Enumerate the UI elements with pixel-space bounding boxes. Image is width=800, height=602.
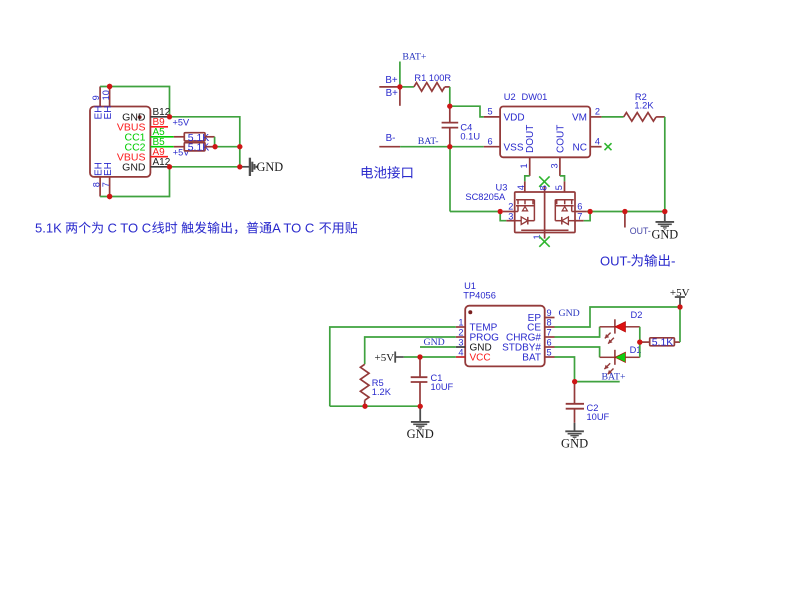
svg-text:BAT-: BAT- [418, 136, 439, 147]
svg-text:5.1K: 5.1K [35, 221, 62, 236]
wire: U1 TEMP to ground rail [330, 327, 456, 406]
pin B12 lead [150, 116, 169, 118]
U3 pin 4 stub [524, 181, 526, 192]
svg-text:7: 7 [577, 212, 582, 222]
svg-text:OUT-: OUT- [600, 254, 631, 269]
svg-text:10: 10 [101, 90, 111, 100]
pin A12 lead [150, 166, 169, 168]
svg-text:C TO C: C TO C [108, 221, 152, 236]
wire: bottom shell rail to A12 net [100, 167, 169, 197]
svg-text:1.2K: 1.2K [634, 101, 654, 111]
U3 pin 8 stub with no-connect [544, 186, 546, 193]
wire: A12 to GND [170, 166, 240, 168]
svg-text:5: 5 [547, 347, 552, 357]
wire: U1 GND pin stub [420, 346, 456, 348]
svg-text:GND: GND [122, 161, 146, 173]
svg-text:+5V: +5V [173, 118, 190, 128]
svg-text:1.2K: 1.2K [372, 387, 392, 397]
svg-text:2: 2 [508, 201, 513, 211]
wire: B- to VSS with BAT- label [400, 146, 450, 148]
svg-text:VM: VM [572, 113, 587, 124]
junction OUT- tap [622, 209, 627, 214]
wire: U1 CE to +5V rail [555, 307, 681, 327]
capacitor C1 10UF [419, 357, 421, 377]
svg-text:5.1K: 5.1K [188, 142, 210, 154]
junction B+ node [397, 84, 402, 89]
LED D1 (green) [600, 356, 615, 358]
wire: BAT- rail into U3 pin2 [450, 211, 500, 213]
wire: U1 CHRG# to D2 [555, 327, 600, 337]
LED D2 light arrows [605, 333, 611, 339]
U3 internal body diode D-B [568, 220, 575, 222]
svg-text:7: 7 [101, 182, 111, 187]
svg-text:COUT: COUT [555, 125, 566, 153]
junction U3 pin6 [588, 209, 593, 214]
svg-text:4: 4 [595, 137, 600, 147]
U3 internal bottom rail [521, 229, 568, 231]
connector pin 7 stub (bottom shell) [109, 177, 111, 197]
svg-text:VCC: VCC [470, 353, 491, 364]
wire: BAT node to BAT+ label [575, 381, 620, 383]
svg-text:6: 6 [547, 337, 552, 347]
junction GND corner (battery out) [662, 209, 667, 214]
wire jog U2 pin1 to U3 pin4 [525, 176, 530, 182]
svg-text:U2: U2 [504, 92, 516, 102]
wire: BAT+ stub [399, 62, 401, 87]
ground symbol GND (under C1) [419, 406, 421, 421]
svg-text:3: 3 [458, 337, 463, 347]
svg-text:U3: U3 [496, 182, 508, 192]
capacitor C2 10UF [574, 382, 576, 404]
U3 pin 3 lead [506, 220, 515, 222]
wire: U1 BAT to battery node [555, 357, 575, 382]
svg-text:BAT+: BAT+ [602, 371, 627, 382]
svg-text:7: 7 [547, 327, 552, 337]
junction C1 bottom / ground [418, 404, 423, 409]
connector pin 9 stub (top shell) [99, 87, 101, 107]
wire: bottom ground rail [330, 405, 420, 407]
note text: battery port label (blue) [362, 166, 373, 178]
wire: tie U3 pins 2-3 [500, 212, 506, 221]
U2 pin 5 VDD [484, 116, 500, 118]
U1 pin 8 CE [545, 326, 555, 328]
svg-text:-: - [671, 254, 676, 269]
junction B12 row [167, 114, 172, 119]
svg-text:10UF: 10UF [587, 412, 610, 422]
U3 center rail pin8 to pin1 [544, 192, 546, 239]
junction GND bus / A12 row [237, 164, 242, 169]
junction at pin10 top [107, 84, 112, 89]
U3 internal MOSFET Q-A (left) [516, 199, 534, 201]
svg-text:GND: GND [561, 437, 588, 451]
svg-text:3: 3 [549, 163, 559, 168]
wire: R1 out down to VDD node [449, 87, 451, 106]
svg-text:2: 2 [595, 107, 600, 117]
LED D1 light arrows [604, 363, 610, 369]
capacitor C4 0.1U [449, 106, 451, 122]
U1 pin 1 TEMP [456, 326, 465, 328]
U2 pin 4 NC [590, 146, 601, 148]
svg-text:5: 5 [488, 107, 493, 117]
net stub OUT- [624, 212, 626, 228]
U1 pin 3 GND [456, 346, 465, 348]
pin B5 lead wire [150, 146, 173, 148]
connector pin B+ (vertical) [399, 87, 401, 106]
U3 internal body diode D-A [515, 220, 522, 222]
U1 pin 9 EP [545, 317, 555, 319]
resistor R5 1.2K [360, 364, 369, 400]
svg-text:D2: D2 [631, 310, 643, 320]
junction VCC/C1 [417, 354, 422, 359]
LED D2 (red) [600, 326, 615, 328]
svg-text:10UF: 10UF [431, 382, 454, 392]
pin A9 lead [150, 156, 168, 158]
svg-text:GND: GND [407, 427, 434, 441]
U3 pin 2 lead [503, 211, 515, 213]
svg-text:3: 3 [508, 212, 513, 222]
svg-text:VDD: VDD [504, 113, 525, 124]
svg-text:VSS: VSS [504, 142, 524, 153]
svg-text:5.1K: 5.1K [652, 337, 674, 349]
svg-text:4: 4 [516, 185, 526, 190]
svg-text:6: 6 [577, 201, 582, 211]
svg-text:DOUT: DOUT [525, 125, 536, 153]
junction at pin7 bottom [107, 194, 112, 199]
svg-text:NC: NC [573, 142, 587, 153]
U1 pin 2 PROG [456, 336, 465, 338]
U3 pin 5 stub [564, 181, 566, 192]
wire: +5V down to R6 [679, 307, 681, 342]
junction VDD node [447, 104, 452, 109]
pin B9 lead [150, 126, 168, 128]
junction BAT- node [447, 144, 452, 149]
wire: B+ to R1 [400, 86, 414, 88]
svg-text:B-: B- [386, 133, 396, 144]
wire: U1 VCC to +5V flag [404, 356, 456, 358]
U1 pin 4 VCC [456, 356, 465, 358]
svg-text:GND: GND [559, 308, 580, 319]
resistor R3 5.1K (CC1) [184, 133, 205, 141]
svg-text:TP4056: TP4056 [463, 291, 496, 301]
wire: tie U3 pins 6-7 [584, 212, 590, 221]
U2 pin 1 DOUT stub down [529, 157, 531, 176]
svg-text:BAT+: BAT+ [402, 52, 427, 63]
svg-text:OUT-: OUT- [630, 226, 651, 236]
svg-text:9: 9 [91, 95, 101, 100]
svg-text:BAT: BAT [522, 353, 541, 364]
svg-text:GND: GND [257, 160, 284, 174]
junction R4 output [213, 144, 218, 149]
U1 pin 6 STDBY# [545, 346, 555, 348]
ground flag GND (connector, rotated earth) [240, 166, 249, 168]
junction BAT node [572, 379, 577, 384]
svg-text:8: 8 [547, 317, 552, 327]
connector pin 8 stub (bottom shell) [99, 177, 101, 197]
pin A5 lead wire [150, 136, 173, 138]
junction A12 row [167, 164, 172, 169]
svg-text:6: 6 [488, 137, 493, 147]
connector pin 10 stub (top shell) [109, 87, 111, 107]
wire: B12 to GND bus vertical [170, 117, 240, 167]
wire: U3 pin6 to OUT-/GND rail [590, 211, 665, 213]
resistor R6 5.1K (LED) [640, 341, 650, 343]
svg-text:B+: B+ [385, 75, 398, 86]
wire: CC resistors to GND bus [215, 146, 240, 148]
svg-text:1: 1 [519, 163, 529, 168]
junction +5V node [677, 304, 682, 309]
U3 pin 7 lead [575, 220, 584, 222]
svg-text:DW01: DW01 [522, 92, 548, 102]
svg-text:B+: B+ [386, 88, 399, 99]
U1 pin 7 CHRG# [545, 336, 555, 338]
wire: D1 anode up to node [639, 342, 641, 357]
svg-text:4: 4 [458, 347, 463, 357]
connector pin B- [379, 146, 400, 148]
wire: R3 to R4 output [214, 137, 216, 147]
U2 pin 3 COUT stub down [559, 157, 561, 176]
U3 internal MOSFET Q-B (right) [555, 199, 573, 201]
svg-text:+5V: +5V [375, 352, 395, 364]
connector pin B+ (horizontal) [379, 86, 400, 88]
no-connect X on U2 pin4 [605, 143, 612, 150]
svg-text:R1 100R: R1 100R [414, 73, 451, 83]
svg-text:SC8205A: SC8205A [465, 192, 506, 202]
svg-text:EH: EH [103, 106, 114, 120]
svg-text:1: 1 [458, 317, 463, 327]
junction U3 pin2 [498, 209, 503, 214]
svg-text:2: 2 [458, 327, 463, 337]
wire: D2 anode down to 5.1K node [639, 327, 641, 342]
U2 pin 6 VSS [484, 146, 500, 148]
svg-text:U1: U1 [464, 281, 476, 291]
wire: top shell rail to B12 net [100, 87, 169, 117]
svg-text:8: 8 [91, 182, 101, 187]
wire jog U2 pin3 to U3 pin5 [560, 176, 565, 182]
svg-text:5: 5 [554, 185, 564, 190]
U2 pin 2 VM [590, 116, 601, 118]
ground symbol GND (under C2) [574, 423, 576, 431]
wire: R2 down to OUT- rail [664, 117, 666, 212]
wire: BAT- down to U3 [449, 147, 451, 212]
svg-text:9: 9 [547, 308, 552, 318]
connector J1 body (USB-C) [90, 107, 150, 177]
wire: VDD node to U2 pin5 [450, 106, 484, 117]
resistor R4 5.1K (CC2) [184, 143, 205, 151]
wire: U1 PROG to R5 [365, 337, 456, 364]
svg-text:A TO C: A TO C [272, 221, 314, 236]
U3 pin 6 lead [575, 211, 587, 213]
wire: VM to R2 [602, 116, 624, 118]
wire: U1 STDBY# to D1 [555, 347, 600, 357]
junction dots overlay [107, 84, 683, 409]
svg-text:EH: EH [103, 162, 114, 176]
junction GND bus / CC row [237, 144, 242, 149]
junction R5 bottom [362, 404, 367, 409]
U1 pin 5 BAT [545, 356, 555, 358]
svg-text:0.1U: 0.1U [460, 132, 480, 142]
svg-text:GND: GND [651, 228, 678, 242]
ground symbol GND (battery output) [664, 212, 666, 222]
junction D1-D2 anode node [637, 340, 642, 345]
